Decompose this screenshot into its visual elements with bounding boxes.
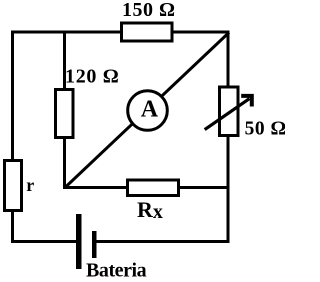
svg-text:Rx: Rx (137, 197, 163, 223)
svg-text:Bateria: Bateria (86, 260, 147, 282)
svg-text:120 Ω: 120 Ω (65, 66, 120, 88)
svg-text:150 Ω: 150 Ω (122, 0, 176, 21)
svg-text:A: A (141, 97, 159, 123)
svg-text:r: r (26, 175, 34, 195)
svg-text:50 Ω: 50 Ω (245, 119, 285, 140)
